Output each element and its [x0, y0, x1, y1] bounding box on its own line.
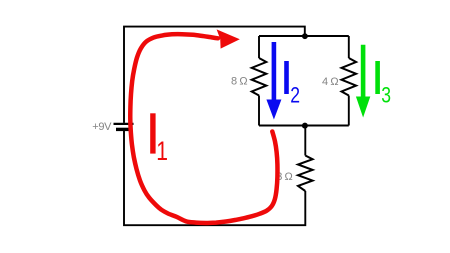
current arrow I3 (green) shaft [361, 45, 366, 99]
current loop I1 (red) curved arrow body [130, 34, 277, 223]
svg-text:2: 2 [290, 84, 300, 108]
battery B1: positive long plate [114, 123, 134, 125]
wire: left rail above R1 [258, 36, 260, 58]
resistor R3 3Ω zigzag [298, 156, 313, 192]
wire: outer loop left + top, from battery positive up and across to top junction [124, 27, 305, 123]
battery B1: negative short thick plate [116, 128, 131, 131]
label I3 bar (green) [375, 61, 380, 94]
svg-text:8 Ω: 8 Ω [231, 76, 247, 88]
current arrow I2 (blue) shaft [272, 42, 277, 102]
wire: right rail above R2 [348, 36, 350, 58]
current arrow I3 (green) head [356, 97, 370, 118]
current arrow I2 (blue) head [266, 100, 281, 120]
wire: parallel box bottom rail [259, 125, 349, 127]
label I1 bar (red) [150, 113, 155, 153]
wire: left rail below R1 [258, 96, 260, 126]
svg-text:4 Ω: 4 Ω [322, 76, 338, 88]
svg-text:3: 3 [381, 84, 391, 108]
resistor R2 4Ω zigzag [342, 58, 357, 96]
wire: outer loop bottom + left lower, from battery negative down, across bottom, up to R3 bottom [124, 131, 305, 225]
wire: parallel box top rail [259, 35, 349, 37]
wire: from bottom junction down to resistor R3 top [304, 126, 306, 156]
current loop I1 (red) arrowhead [217, 29, 240, 48]
wire: right rail below R2 [348, 96, 350, 126]
resistor R1 8Ω zigzag [252, 58, 267, 96]
label I2 bar (blue) [284, 61, 289, 94]
svg-text:1: 1 [156, 136, 168, 166]
svg-text:+9V: +9V [92, 121, 112, 133]
node: bottom junction dot [302, 123, 308, 129]
node: top junction dot [302, 33, 308, 39]
